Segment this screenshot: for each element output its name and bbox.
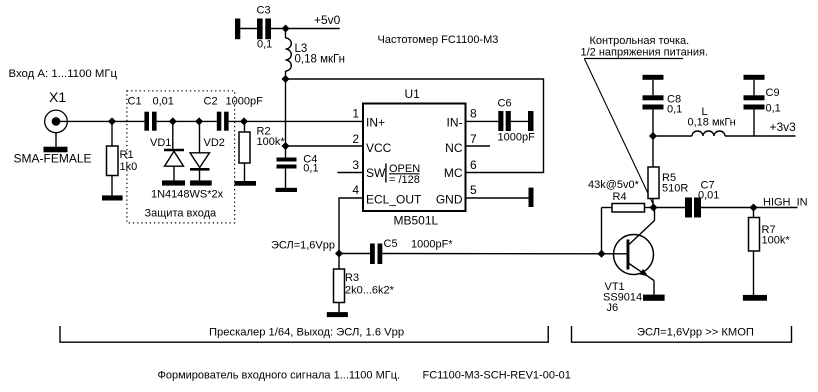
capacitor C7 [654,180,798,218]
svg-text:FC1100-M3-SCH-REV1-00-01: FC1100-M3-SCH-REV1-00-01 [423,370,571,382]
svg-text:1000pF: 1000pF [226,96,264,108]
svg-text:0,01: 0,01 [153,96,174,108]
svg-text:1N4148WS*2x: 1N4148WS*2x [151,189,224,201]
bracket ECL to CMOS [572,326,792,342]
svg-text:R1: R1 [120,149,134,161]
caption document id [423,370,571,382]
wire C5 to base [382,253,627,255]
node collector junction [650,204,658,212]
node below L3 [282,75,290,83]
svg-text:0,1: 0,1 [667,104,682,116]
svg-text:0,18 мкГн: 0,18 мкГн [688,117,736,129]
capacitor C2 [217,112,229,131]
svg-text:SW: SW [366,166,386,180]
svg-text:6: 6 [470,158,477,172]
svg-text:IN-: IN- [447,116,463,130]
resistor R4 [588,179,654,254]
ground under C4 [276,188,298,192]
wire 3v3 rail right part [725,135,796,137]
svg-text:IN+: IN+ [366,116,385,130]
svg-text:2k0...6k2*: 2k0...6k2* [345,285,395,297]
ground under VD1 [162,180,185,185]
node HIGH_IN [763,197,808,209]
svg-text:ЭСЛ=1,6Vpp: ЭСЛ=1,6Vpp [271,240,335,252]
resistor R2 [239,121,285,181]
node R2 tap [240,117,248,125]
svg-text:MC: MC [444,166,463,180]
ground under R2 [235,181,257,186]
capacitor C5 [370,238,453,264]
resistor R7 [749,208,791,295]
capacitor C4 [277,154,319,188]
bracket prescaler [60,326,548,342]
ground under R7 [743,295,767,301]
svg-text:4: 4 [352,183,359,197]
wire 3v3 rail left part [653,135,692,137]
pin 8 wire to C6 [466,120,498,122]
inductor L3 [286,29,345,80]
svg-text:Защита входа: Защита входа [145,208,218,220]
svg-text:SMA-FEMALE: SMA-FEMALE [14,152,92,166]
svg-text:1000pF: 1000pF [498,132,536,144]
svg-text:R3: R3 [345,272,359,284]
svg-text:100k*: 100k* [762,235,791,247]
resistor R1 [107,121,138,195]
svg-text:1k0: 1k0 [120,161,138,173]
wire node to C5 [339,253,370,255]
ground under VT1 emitter [643,295,665,301]
node +3v3 rail junction [649,132,657,140]
svg-text:43k@5v0*: 43k@5v0* [588,179,640,191]
caption title [158,370,401,382]
node +5 junction [282,25,290,33]
title text input [9,68,118,80]
svg-text:+5v0: +5v0 [314,13,341,27]
SW open annotation [385,163,387,182]
svg-text:Частотомер FC1100-M3: Частотомер FC1100-M3 [378,34,499,46]
svg-text:U1: U1 [405,87,421,101]
svg-text:C2: C2 [204,96,218,108]
svg-text:VCC: VCC [366,141,392,155]
svg-text:1/2 напряжения питания.: 1/2 напряжения питания. [581,46,709,58]
svg-text:R4: R4 [613,191,627,203]
resistor R3 [334,254,395,313]
op-amp U1 chip body MB501L [352,87,477,228]
svg-text:Контрольная точка.: Контрольная точка. [590,35,690,47]
svg-text:1000pF*: 1000pF* [411,239,453,251]
callout control point [581,35,709,206]
svg-text:+3v3: +3v3 [770,120,797,134]
pin 3 stub wire [338,172,364,174]
svg-text:VD1: VD1 [150,137,171,149]
wire +5 down to VCC and C4 [285,79,287,158]
svg-text:GND: GND [436,193,463,207]
diode VD1 [150,121,184,180]
wire C2 to pin1 [229,120,363,122]
capacitor C8 [643,80,683,136]
pin 4 ECL_OUT wire [339,198,363,254]
svg-text:C6: C6 [498,98,512,110]
capacitor C1 [144,112,156,131]
svg-text:7: 7 [470,132,477,146]
node ESL output [271,240,335,252]
wire +5 rail to MC pin6 [286,79,544,173]
node base junction [598,250,606,258]
ground bar right of C6 [528,111,534,131]
node input junction [108,117,116,125]
ground bar above C9 [744,75,765,80]
capacitor C9 [744,80,781,136]
svg-text:0,18 мкГн: 0,18 мкГн [295,54,345,66]
svg-text:ECL_OUT: ECL_OUT [366,193,422,207]
capacitor C3 [240,5,272,51]
svg-text:1: 1 [352,107,359,121]
svg-text:ЭСЛ=1,6Vpp >> КМОП: ЭСЛ=1,6Vpp >> КМОП [637,326,754,338]
svg-text:Вход А: 1...1100 МГц: Вход А: 1...1100 МГц [9,68,118,80]
svg-text:C1: C1 [128,96,142,108]
pin numbers [352,107,477,198]
svg-text:0,1: 0,1 [257,39,272,51]
dotted protection box [127,91,235,223]
ground bar pin5 [529,188,534,207]
svg-text:X1: X1 [49,89,66,105]
svg-text:3: 3 [352,158,359,172]
wire C1 to C2 [157,120,217,122]
svg-text:510R: 510R [662,183,688,195]
pin 7 stub wire [466,145,490,147]
ground bar above C8 [643,75,664,80]
node VD2 tap [195,117,203,125]
power +3v3 [770,120,797,134]
svg-text:C5: C5 [384,238,398,250]
svg-text:C3: C3 [257,5,271,17]
ground under VD2 [190,180,212,185]
svg-text:2: 2 [352,132,359,146]
svg-text:5: 5 [470,183,477,197]
connector X1 [14,89,92,166]
svg-text:0,1: 0,1 [303,163,318,175]
svg-text:100k*: 100k* [257,136,286,148]
node VCC tap [282,142,290,150]
wire VCC pin2 [286,145,364,147]
resistor R5 [648,136,688,208]
svg-text:8: 8 [470,107,477,121]
title text device [378,34,499,46]
node VD1 tap [169,117,177,125]
ground bar left of C3 [235,19,240,40]
svg-text:Формирователь входного сигнала: Формирователь входного сигнала 1...1100 … [158,370,401,382]
svg-text:Прескалер 1/64, Выход: ЭСЛ, 1.: Прескалер 1/64, Выход: ЭСЛ, 1.6 Vpp [209,326,404,338]
svg-text:0,1: 0,1 [766,103,781,115]
svg-text:VD2: VD2 [204,137,225,149]
transistor VT1 [603,208,655,315]
diode VD2 [190,121,225,180]
wire +5v0 rail [271,28,340,30]
svg-text:= /128: = /128 [389,174,420,186]
svg-text:J6: J6 [607,302,619,314]
svg-text:HIGH_IN: HIGH_IN [763,197,808,209]
svg-text:MB501L: MB501L [394,214,439,228]
capacitor C6 [498,98,536,144]
svg-text:C9: C9 [766,87,780,99]
ground under X1 [44,147,68,153]
wire X1 to C1 [58,120,144,122]
ground under R1 [102,195,123,200]
power +5v0 [314,13,341,27]
svg-text:NC: NC [445,141,463,155]
svg-text:0,01: 0,01 [698,190,719,202]
pin 5 GND wire [466,197,529,199]
ground under R3 [327,312,348,317]
inductor L [688,106,736,136]
